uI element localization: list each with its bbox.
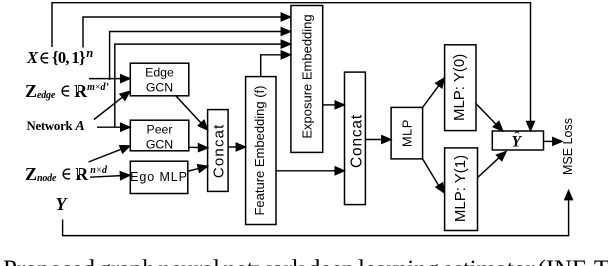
wire Z_edge to Edge GCN <box>89 78 121 80</box>
wire X to Exposure Embedding <box>83 17 282 48</box>
box Feature Embedding <box>246 77 276 225</box>
wire Exposure Embedding to Concat 2 <box>323 104 336 106</box>
box Peer GCN <box>130 120 189 151</box>
wire Z_node to Peer GCN (diagonal) <box>89 149 123 162</box>
wire Concat 2 to MLP <box>366 139 383 141</box>
box MLP: Y(0) <box>445 45 476 131</box>
wire Y to MSE Loss (bottom) <box>63 200 569 236</box>
wire Z_edge riser to Exposure Embedding <box>110 32 282 81</box>
label Z_edge in R^(m x d') <box>25 82 109 100</box>
wire Edge GCN to Concat 1 (diagonal) <box>176 96 202 124</box>
box Concat 2 <box>345 72 366 205</box>
wire X to Yhat (top long line) <box>52 3 531 122</box>
svg-text:Feature Embedding (f): Feature Embedding (f) <box>252 85 267 215</box>
box Concat 1 <box>208 110 229 192</box>
label Network A <box>27 120 85 134</box>
svg-text:GCN: GCN <box>146 81 173 95</box>
box Y hat <box>492 131 543 150</box>
svg-text:Edge: Edge <box>145 66 174 80</box>
box Exposure Embedding <box>291 6 323 153</box>
svg-text:Peer: Peer <box>147 123 173 137</box>
svg-text:Exposure Embedding: Exposure Embedding <box>299 14 314 138</box>
label Y (observed outcome) <box>56 195 67 213</box>
wire MLP: Y(0) to Y hat (diagonal) <box>476 104 497 126</box>
box Ego MLP <box>130 161 188 193</box>
wire MLP: Y(1) to Y hat (diagonal) <box>478 157 500 177</box>
wire Network A to Peer GCN <box>97 126 121 128</box>
svg-text:MLP: Y(1): MLP: Y(1) <box>452 155 469 222</box>
wire Feature Embedding to Concat 2 <box>276 170 336 172</box>
svg-text:Concat: Concat <box>211 123 228 178</box>
box MLP: Y(1) <box>445 148 478 231</box>
wire Z_node to Ego MLP <box>90 176 121 178</box>
box MLP <box>391 107 423 158</box>
wire Concat 1 to Feature Embedding <box>228 146 237 148</box>
box Edge GCN <box>130 63 189 96</box>
wire Ego MLP to Concat 1 <box>189 168 200 171</box>
svg-text:MSE Loss: MSE Loss <box>561 118 575 175</box>
svg-text:Ego MLP: Ego MLP <box>130 170 188 184</box>
svg-text:MLP: Y(0): MLP: Y(0) <box>451 54 468 121</box>
wire MLP to MLP: Y(0) (diagonal) <box>423 86 439 108</box>
wire Y hat to MSE Loss <box>544 140 554 142</box>
wire Peer GCN to Concat 1 <box>189 146 199 148</box>
caption (cut off at bottom) <box>3 257 608 266</box>
svg-text:Concat: Concat <box>349 114 366 168</box>
wire Network A riser to Exposure Embedding <box>115 44 282 127</box>
wire Feature Embedding to Exposure Embedding <box>261 55 282 77</box>
svg-text:MLP: MLP <box>400 119 415 147</box>
label X in {0,1}^n <box>27 48 93 67</box>
svg-text:ˆ: ˆ <box>515 129 520 145</box>
svg-text:GCN: GCN <box>146 138 173 152</box>
wire MLP to MLP: Y(1) (diagonal) <box>423 159 439 185</box>
wire Network A to Edge GCN (diagonal) <box>94 96 124 119</box>
label Z_node in R^(n x d) <box>25 165 107 183</box>
